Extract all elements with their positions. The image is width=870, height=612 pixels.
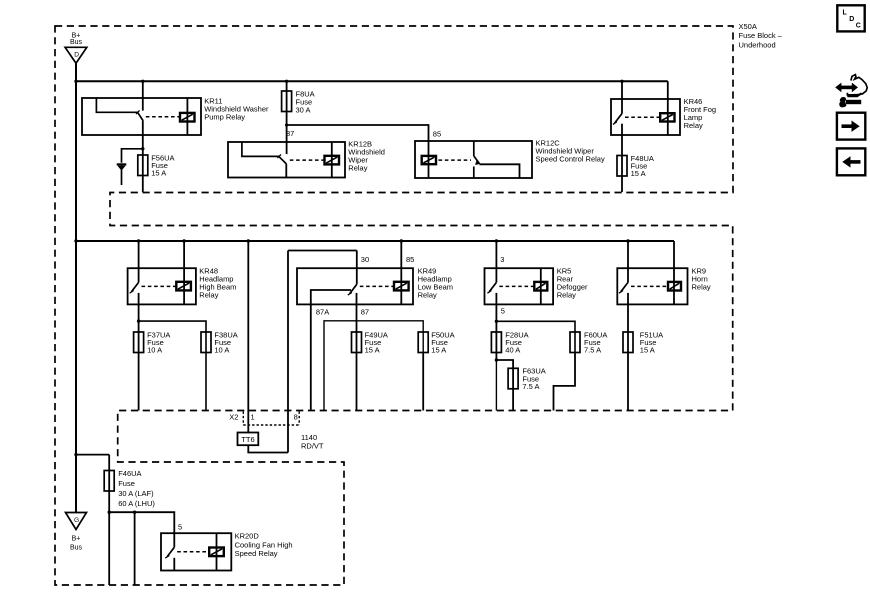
F63UA label [522,367,545,391]
KR48 label [199,266,236,299]
svg-text:8: 8 [294,413,298,422]
wire KR11 switch input from bus1 [142,81,144,110]
svg-text:G: G [74,517,79,524]
KR5 contact tick [487,291,491,294]
node junction bus1/KR11 [141,80,144,83]
svg-text:Relay: Relay [418,290,437,299]
svg-text:B+: B+ [72,536,81,543]
wire branch to F60UA [496,321,575,352]
fuse F49UA [352,332,362,353]
KR49 label [418,266,453,299]
svg-text:X50A: X50A [739,22,757,31]
F28UA label [505,330,528,354]
KR12B label [348,139,385,172]
relay KR49 box [297,268,413,304]
KR9 switch arm [621,282,628,291]
wire KR12C switch input from box edge [473,141,475,156]
node junction KR5 out/F60UA [495,320,498,323]
node junction B+ / F46UA branch [74,453,77,456]
svg-text:Relay: Relay [557,290,576,299]
icon body-repair double arrow with wrench [835,75,867,108]
wire B+ vertical trunk [75,63,77,512]
wire KR49 87A contact bar [311,290,351,411]
wire mid branch to block edge [134,512,136,585]
F8UA label [296,89,315,114]
F37UA label [147,330,170,354]
KR12C coil link dashed [439,159,472,161]
node junction bus2/KR5 [495,239,498,242]
node junction bus2/KR9 [626,239,629,242]
KR46 coil link dashed [625,116,660,118]
coil KR11 [180,113,195,122]
wire KR49 coil feed from bus2 pin85 [400,241,402,304]
F50UA label [431,330,454,354]
KR48 coil link dashed [142,285,177,287]
node junction mid branch [133,511,136,514]
KR12C switch arm [474,156,479,163]
svg-text:Speed Relay: Speed Relay [235,549,278,558]
wire KR11 switch output to F56UA and block edge [142,121,144,192]
svg-text:30 A (LAF): 30 A (LAF) [118,489,154,498]
relay KR5 box [485,268,554,304]
svg-text:RD/VT: RD/VT [301,441,324,450]
svg-text:30 A: 30 A [296,105,311,114]
wire KR5 pin5 output [495,293,497,360]
wire KR46 switch input from bus1 [621,81,623,113]
svg-text:40 A: 40 A [505,346,520,355]
wire F46UA column [108,455,110,585]
KR9 coil link dashed [631,285,668,287]
KR11 contact tick [136,110,140,114]
wire KR9 coil feed from bus2 corner [673,241,675,304]
svg-text:60 A (LHU): 60 A (LHU) [118,499,155,508]
relay KR9 box [617,268,687,304]
fuse F51UA [623,332,633,353]
svg-text:Relay: Relay [692,282,711,291]
wire bus 2 (second feed bus) [76,240,674,242]
diode (suppression) [117,163,127,165]
wire KR12B fixed contact L-feed [242,142,279,156]
KR11 switch arm [138,113,143,121]
fuse F63UA [508,368,518,389]
wire bus2 to X2 pin 1 / TT6 [247,241,249,433]
node junction bus2/B+ [74,239,77,242]
node junction bus1/F8UA [285,80,288,83]
connector X2 pin bracket [242,412,244,426]
KR5 coil link dashed [499,285,534,287]
KR20D switch arm [167,547,174,556]
fuse F50UA [418,332,428,353]
svg-text:Relay: Relay [348,163,367,172]
wire KR48 switch input from bus2 [138,241,140,282]
terminal TT6 box [238,433,259,446]
fuse F38UA [201,332,211,353]
svg-text:15 A: 15 A [151,169,166,178]
wire branch to F63UA [496,360,513,389]
svg-text:5: 5 [178,523,182,532]
KR12C arm arrowhead [475,160,481,165]
wire KR9 switch input from bus2 [627,241,629,282]
X50A block label [739,22,783,50]
svg-text:1: 1 [251,413,255,422]
wire diode branch [122,149,143,163]
svg-text:10 A: 10 A [147,346,162,355]
wire KR12B switch output stub [285,164,287,178]
KR11 coil link dashed [146,116,180,118]
wire below F50UA [422,353,424,411]
svg-text:D: D [849,16,854,23]
svg-text:Speed Control Relay: Speed Control Relay [536,154,605,163]
wire KR46 switch output to F48UA and block edge [621,124,623,192]
X50A fuse block underhood dashed boundary [55,26,733,585]
wire KR20D output stub [173,558,175,571]
svg-text:30: 30 [361,255,369,264]
svg-text:Fuse Block –: Fuse Block – [739,31,783,40]
svg-text:87A: 87A [316,307,329,316]
wire branch to F46UA [76,454,109,456]
wire below F63UA [512,389,514,411]
KR9 contact tick [619,291,623,294]
node junction bus2/X2 pin1 [247,239,250,242]
F38UA label [214,330,237,354]
KR5 switch arm [489,282,496,291]
fuse F46UA [104,471,114,492]
coil KR46 [660,113,674,121]
node junction F8UA out [285,123,288,126]
wire to KR20D switch [109,512,174,547]
F60UA label [584,330,607,354]
icon LDC box [837,5,864,31]
KR46 switch arm [615,114,622,123]
coil KR12C [422,156,436,164]
svg-text:Bus: Bus [70,39,83,46]
fuse F48UA [617,156,627,177]
node junction F37UA/F38UA [137,319,140,322]
wire KR11 coil feed from box edge [186,98,188,135]
svg-text:85: 85 [406,255,414,264]
svg-text:87: 87 [361,307,369,316]
wire 1140 RD/VT label [301,433,324,451]
KR11 label [204,97,269,122]
relay KR12B box [228,142,345,178]
svg-text:Underhood: Underhood [739,41,776,50]
coil KR9 [668,282,681,291]
wire bus 1 (top feed bus) [76,80,668,82]
node junction bus2/KR49 coil pin85 [400,239,403,242]
node junction F56UA/diode branch [141,147,144,150]
KR12C label [536,138,605,163]
svg-text:Relay: Relay [684,121,703,130]
svg-text:Cooling Fan High: Cooling Fan High [235,540,293,549]
svg-text:7.5 A: 7.5 A [522,382,539,391]
wire KR5 switch input from bus2 [495,241,497,282]
svg-text:Bus: Bus [70,544,83,551]
F51UA label [640,330,663,354]
KR12B switch arm [279,157,286,164]
svg-text:10 A: 10 A [214,346,229,355]
svg-text:Fuse: Fuse [118,479,135,488]
F49UA label [365,330,388,354]
wire branch to F38UA [139,321,206,410]
KR20D label [235,532,293,559]
wire TT6 bottom loop to 1140 [248,445,288,452]
svg-text:85: 85 [433,130,441,139]
relay KR46 box [611,99,680,135]
coil KR49 [394,282,409,291]
wire below F28UA to block edge [495,360,497,411]
KR48 contact tick [130,291,134,294]
F48UA label [631,154,654,178]
svg-text:F46UA: F46UA [118,469,141,478]
svg-text:Pump Relay: Pump Relay [204,113,245,122]
KR9 label [692,266,711,291]
svg-text:Relay: Relay [199,290,218,299]
node junction bus1/KR46 [620,80,623,83]
svg-text:3: 3 [500,255,504,264]
svg-text:5: 5 [501,306,505,315]
wire KR12B coil feed from box edge [331,142,333,178]
KR20D coil link dashed [177,551,209,553]
svg-text:TT6: TT6 [241,435,254,444]
svg-text:C: C [856,22,861,29]
wire KR20D coil feed from box edge [216,533,218,570]
svg-text:15 A: 15 A [431,346,446,355]
icon arrow left box [837,148,865,175]
KR5 label [557,266,588,299]
coil KR12B [325,156,340,165]
KR48 switch arm [132,282,139,291]
relay KR12C box [415,141,532,178]
wire 87 distribution loop to F50UA [324,321,423,411]
svg-text:15 A: 15 A [365,346,380,355]
node junction bus2/KR48 switch [137,239,140,242]
wire KR48 coil feed from bus2 [183,241,185,304]
wire KR49 pin87 output [356,293,358,411]
svg-text:7.5 A: 7.5 A [584,346,601,355]
wire KR46 coil feed from bus1 [667,81,669,135]
node junction F28UA out/F63UA [495,358,498,361]
F56UA label [151,153,174,177]
wire KR9 output to F51UA [627,293,629,411]
relay KR20D box [161,533,231,570]
coil KR20D [209,548,224,557]
wire KR48 switch output to fuses [138,293,140,411]
node junction bus1/B+ [74,80,77,83]
B+ bus triangle D [65,47,87,63]
wire KR5 coil feed from box edge [540,268,542,304]
wire KR12C coil feed through [428,141,430,178]
wire below F60UA jog to block edge [554,353,576,411]
node junction F46UA out / KR20D feed [108,511,111,514]
icon arrow right box [837,113,865,140]
KR12B contact tick [277,155,281,159]
svg-text:KR20D: KR20D [235,532,260,541]
wire KR12C switch output L [480,164,520,178]
KR46 label [684,97,717,130]
fuse F60UA [570,332,580,353]
KR12B coil link dashed [290,159,325,161]
wire KR49 pin30 loop from pin8 column [287,251,289,453]
KR49 coil link dashed [360,285,394,287]
wire F8UA to KR12C coil [287,125,429,141]
F46UA label [118,469,155,508]
fuse F28UA [491,332,501,353]
KR49 switch arm [350,284,357,293]
svg-text:D: D [74,52,79,59]
node B+ Bus (G) triangle [66,513,87,530]
fuse F56UA [138,155,148,176]
svg-text:87: 87 [286,129,294,138]
KR20D contact tick [165,555,169,558]
fuse F37UA [134,332,144,353]
coil KR5 [534,282,547,291]
fuse F8UA [286,81,288,154]
KR46 contact tick [613,122,617,125]
KR49 contact tick [348,292,352,295]
coil KR48 [176,282,191,291]
relay KR11 box [82,98,201,135]
node junction bus2/KR48 coil [182,239,185,242]
wire KR12C stub below arm [473,167,475,179]
svg-text:L: L [843,10,848,17]
relay KR48 box [128,268,196,304]
svg-text:15 A: 15 A [640,346,655,355]
wire below diode [121,170,123,185]
node B+ Bus (D) label [70,32,83,46]
svg-text:15 A: 15 A [631,169,646,178]
svg-text:X2: X2 [229,413,238,422]
wire KR11 fixed contact L-feed [96,98,137,112]
